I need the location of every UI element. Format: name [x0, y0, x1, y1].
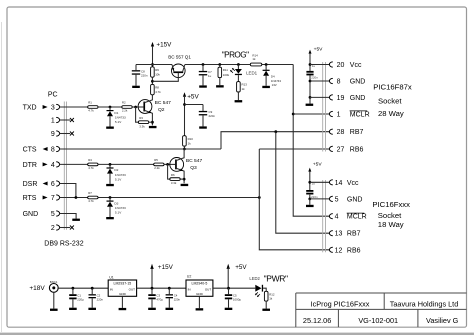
svg-text:GND: GND	[23, 211, 39, 218]
svg-text:19: 19	[337, 95, 345, 102]
svg-text:3: 3	[51, 105, 55, 112]
svg-text:27: 27	[337, 146, 345, 153]
svg-text:9: 9	[51, 131, 55, 138]
svg-text:IN: IN	[188, 288, 191, 292]
svg-text:5.1V: 5.1V	[115, 177, 122, 181]
svg-text:8: 8	[51, 147, 55, 154]
svg-text:PC: PC	[48, 92, 58, 99]
svg-text:5: 5	[51, 211, 55, 218]
svg-text:5.1V: 5.1V	[115, 120, 122, 124]
svg-text:BC 547: BC 547	[186, 158, 203, 164]
svg-text:R7: R7	[88, 191, 92, 195]
svg-text:GND: GND	[196, 292, 204, 296]
svg-text:OUT: OUT	[205, 288, 212, 292]
svg-text:2: 2	[51, 225, 55, 232]
svg-text:R8: R8	[155, 85, 159, 89]
svg-text:+15V: +15V	[156, 42, 172, 49]
svg-text:1u: 1u	[312, 64, 316, 68]
svg-text:RTS: RTS	[23, 195, 37, 202]
svg-text:25.12.06: 25.12.06	[303, 316, 331, 325]
svg-text:7: 7	[51, 195, 55, 202]
svg-text:+15V: +15V	[158, 264, 174, 271]
svg-text:4.7k: 4.7k	[88, 109, 94, 113]
svg-text:20: 20	[337, 62, 345, 69]
svg-text:5.1V: 5.1V	[115, 211, 122, 215]
svg-text:RB6: RB6	[347, 247, 361, 254]
svg-text:R5: R5	[154, 158, 158, 162]
svg-text:+5V: +5V	[314, 47, 324, 53]
svg-text:1: 1	[51, 118, 55, 125]
svg-text:R10: R10	[188, 137, 194, 141]
svg-text:MCLR: MCLR	[347, 214, 367, 221]
svg-text:18 Way: 18 Way	[378, 220, 404, 229]
svg-text:1: 1	[337, 112, 341, 119]
svg-text:220n: 220n	[97, 297, 104, 301]
svg-text:220n: 220n	[174, 297, 181, 301]
svg-text:IN: IN	[110, 288, 113, 292]
svg-text:CTS: CTS	[23, 147, 37, 154]
svg-text:+5V: +5V	[187, 93, 199, 100]
svg-text:LED1: LED1	[246, 71, 258, 76]
svg-text:R6: R6	[171, 173, 175, 177]
svg-text:GND: GND	[350, 95, 366, 102]
svg-text:Vcc: Vcc	[347, 180, 359, 187]
svg-text:OUT: OUT	[129, 288, 136, 292]
svg-text:GND: GND	[350, 79, 366, 86]
svg-text:4.7k: 4.7k	[88, 199, 94, 203]
svg-text:12: 12	[335, 247, 343, 254]
svg-text:Taavura Holdings Ltd: Taavura Holdings Ltd	[390, 300, 459, 309]
svg-text:U1: U1	[109, 276, 114, 280]
svg-text:"PWR": "PWR"	[264, 274, 288, 284]
svg-text:IcProg PIC16Fxxx: IcProg PIC16Fxxx	[311, 300, 370, 309]
svg-text:BC 557 Q1: BC 557 Q1	[168, 54, 191, 59]
svg-text:TXD: TXD	[23, 105, 37, 112]
svg-text:Q2: Q2	[158, 107, 165, 113]
svg-text:13: 13	[335, 231, 343, 238]
svg-text:R4: R4	[88, 158, 92, 162]
svg-text:470µ: 470µ	[156, 297, 163, 301]
svg-text:220n: 220n	[311, 195, 318, 199]
svg-text:220µ: 220µ	[77, 297, 84, 301]
svg-text:R1: R1	[88, 101, 92, 105]
svg-text:3.3k: 3.3k	[171, 181, 177, 185]
svg-text:6: 6	[51, 181, 55, 188]
svg-text:28: 28	[337, 129, 345, 136]
svg-text:RB7: RB7	[347, 231, 361, 238]
svg-text:Vcc: Vcc	[350, 62, 362, 69]
svg-text:Vasiliev G: Vasiliev G	[426, 316, 459, 325]
svg-text:1N4733: 1N4733	[115, 115, 126, 119]
svg-text:DTR: DTR	[23, 162, 37, 169]
svg-text:D1: D1	[114, 111, 118, 115]
svg-text:+18V: +18V	[29, 285, 45, 292]
svg-text:1k: 1k	[188, 142, 192, 146]
svg-text:R9: R9	[155, 68, 159, 72]
svg-text:DSR: DSR	[23, 181, 38, 188]
svg-text:4: 4	[51, 162, 55, 169]
svg-text:4.7k: 4.7k	[155, 90, 161, 94]
svg-text:R13: R13	[242, 83, 248, 87]
svg-text:220n: 220n	[141, 74, 148, 78]
svg-text:Socket: Socket	[378, 211, 402, 220]
svg-text:28 Way: 28 Way	[378, 109, 404, 118]
svg-text:DB9 RS-232: DB9 RS-232	[44, 240, 83, 247]
svg-text:220n: 220n	[209, 114, 216, 118]
svg-text:LED2: LED2	[249, 276, 260, 281]
svg-text:5: 5	[335, 196, 339, 203]
svg-text:2.2k: 2.2k	[154, 166, 160, 170]
svg-text:LM2937-15: LM2937-15	[114, 281, 132, 285]
svg-text:R11: R11	[223, 68, 228, 72]
svg-text:MCLR: MCLR	[350, 112, 370, 119]
svg-text:GND: GND	[347, 196, 363, 203]
svg-text:4: 4	[335, 214, 339, 221]
svg-text:BC 547: BC 547	[155, 100, 172, 106]
svg-text:4.7k: 4.7k	[88, 166, 94, 170]
svg-text:D3: D3	[114, 201, 118, 205]
svg-text:BNC1: BNC1	[50, 280, 58, 284]
svg-text:D2: D2	[114, 168, 118, 172]
svg-text:10k: 10k	[155, 72, 160, 76]
svg-text:1N4733: 1N4733	[115, 173, 126, 177]
svg-text:2.2k: 2.2k	[122, 109, 128, 113]
svg-text:R2: R2	[122, 101, 126, 105]
svg-text:RB7: RB7	[350, 129, 364, 136]
svg-text:+5V: +5V	[235, 264, 247, 271]
svg-text:RB6: RB6	[350, 146, 364, 153]
svg-text:1u: 1u	[208, 74, 212, 78]
svg-text:14: 14	[335, 180, 343, 187]
svg-text:VG-102-001: VG-102-001	[358, 316, 398, 325]
svg-text:100k: 100k	[223, 73, 230, 77]
svg-text:PIC16F87x: PIC16F87x	[373, 82, 412, 91]
svg-text:1N4743: 1N4743	[271, 79, 282, 83]
svg-text:13V: 13V	[272, 83, 277, 87]
svg-text:1N4733: 1N4733	[115, 206, 126, 210]
svg-text:1000µ: 1000µ	[233, 297, 241, 301]
svg-text:3.3k: 3.3k	[139, 124, 145, 128]
svg-text:R3: R3	[139, 116, 143, 120]
svg-text:1k: 1k	[252, 57, 256, 61]
svg-text:"PROG": "PROG"	[222, 51, 249, 60]
svg-text:Socket: Socket	[378, 97, 402, 106]
svg-text:LM2940-5: LM2940-5	[192, 281, 208, 285]
svg-text:+5V: +5V	[313, 162, 323, 168]
svg-text:Q3: Q3	[190, 165, 197, 171]
svg-text:220n: 220n	[311, 76, 318, 80]
svg-text:8: 8	[337, 79, 341, 86]
svg-text:GND: GND	[119, 292, 127, 296]
svg-text:1u: 1u	[312, 182, 316, 186]
svg-text:U2: U2	[187, 275, 192, 279]
svg-text:PIC16Fxxx: PIC16Fxxx	[372, 200, 410, 209]
svg-text:D4: D4	[271, 74, 275, 78]
